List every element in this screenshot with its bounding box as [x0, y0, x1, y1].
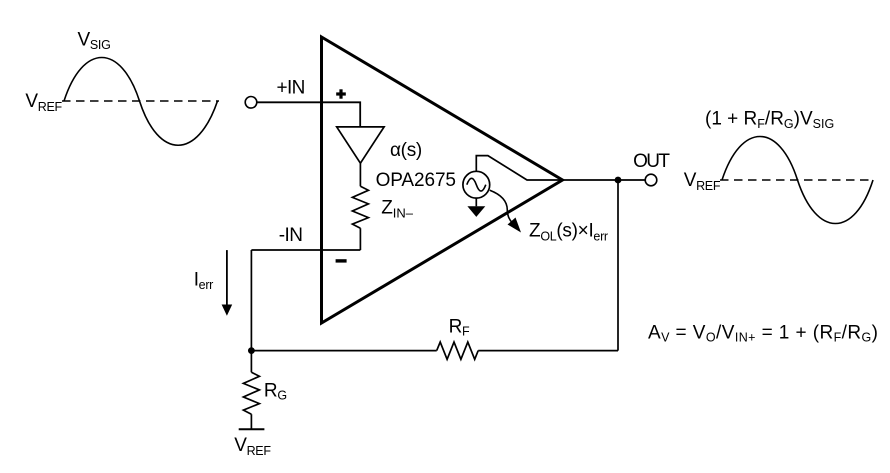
input waveform baseline (dashed): [62, 100, 219, 102]
wire feedback rail left segment: [251, 350, 436, 352]
ground VREF bar: [239, 428, 265, 430]
resistor RG: [243, 372, 259, 414]
node output junction: [615, 177, 622, 184]
wire feedback rail right segment: [478, 350, 618, 352]
buffer amplifier α(s): [337, 127, 384, 163]
sine symbol inside source: [467, 178, 486, 191]
wire output down to feedback: [617, 180, 619, 351]
wire source to ground: [475, 198, 477, 206]
wire +IN terminal to buffer input: [257, 102, 360, 127]
svg-text:OPA2675: OPA2675: [376, 170, 456, 191]
wire RG to VREF ground: [250, 414, 252, 429]
input waveform sine VSIG: [64, 58, 218, 146]
wire output apex to OUT terminal: [563, 179, 646, 181]
leader arrow from source to value label: [490, 190, 521, 232]
resistor ZIN-: [352, 186, 368, 228]
wire ZIN resistor to -IN rail: [359, 228, 361, 250]
svg-text:OUT: OUT: [633, 151, 670, 172]
op-amp U1 OPA2675 outer triangle: [322, 37, 563, 323]
terminal +IN: [245, 97, 257, 109]
output waveform sine: [722, 137, 873, 224]
node feedback junction: [248, 347, 255, 354]
ground (arrow style) under source: [467, 206, 485, 217]
wire -IN down to feedback junction: [250, 250, 252, 351]
output waveform baseline (dashed): [720, 179, 873, 181]
svg-text:α(s): α(s): [390, 140, 422, 161]
controlled source circle: [463, 171, 490, 198]
pin − (inverting input marker): [336, 259, 347, 262]
wire -IN horizontal rail: [251, 249, 360, 251]
wire junction to RG: [250, 351, 252, 373]
wire buffer output to ZIN resistor: [359, 163, 361, 186]
resistor RF: [437, 342, 479, 359]
svg-text:-IN: -IN: [279, 225, 303, 246]
current arrow Ierr: [222, 250, 233, 316]
svg-text:+IN: +IN: [277, 78, 305, 99]
pin + (noninverting input marker): [336, 89, 346, 98]
svg-text:AV = VO/VIN+ = 1 + (RF/RG): AV = VO/VIN+ = 1 + (RF/RG): [648, 322, 878, 344]
terminal OUT: [645, 174, 657, 186]
controlled source ZOL(s)xIerr wire to output apex: [476, 156, 562, 180]
